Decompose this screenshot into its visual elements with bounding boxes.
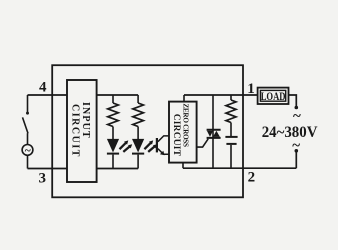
INPUT CIRCUIT box U1 [67,80,97,182]
wire: ZERO CROSS box top stub to output top rail [183,95,185,102]
resistor R1 [108,103,119,127]
wire: LED1 cathode to bottom rail [112,155,114,169]
svg-text:3: 3 [39,170,47,186]
capacitor C1 (snubber) [225,136,237,138]
AC source G1 (circle with tilde) [22,145,33,156]
wire: switch to AC source [27,133,29,144]
wire: input top rail (terminal 4 to resistor branches) [28,94,139,96]
wire: R1 to LED anode [112,127,114,140]
wire: branch R1 top lead [112,95,114,103]
LED LED1 (emitting diode) [107,139,119,153]
light arrows into phototransistor [144,140,157,152]
wire: input bottom rail (terminal 3 to LED cathodes) [28,168,139,170]
svg-text:1: 1 [247,81,255,97]
svg-text:LOAD: LOAD [261,89,286,103]
svg-text:INPUT: INPUT [80,102,91,138]
triac T1 [207,130,221,138]
svg-text:24~380V: 24~380V [262,124,318,141]
wire: R2 to LED anode [137,127,139,140]
switch S1 (open blade) [23,117,29,133]
wire: output bottom rail (terminal 2) [183,167,296,169]
wire: left riser from terminal 4 to switch contact [27,95,29,112]
svg-text:4: 4 [39,80,47,96]
wire: LED2 cathode to bottom rail [137,155,139,169]
svg-text:2: 2 [248,170,256,186]
svg-text:ZERO CROSS: ZERO CROSS [182,103,190,147]
wire: gate from ZERO CROSS to triac [197,139,209,147]
wire: R3 to C1 [230,123,232,137]
wire: output top rail (to terminal 1 and LOAD) [184,94,258,96]
wire: LOAD to AC line top [289,95,297,107]
LED LED2 (emitting diode) [132,139,144,153]
svg-text:CIRCUIT: CIRCUIT [69,104,80,157]
resistor R3 (snubber) [226,100,236,123]
wire: C1 to bottom rail [230,145,232,168]
wire: ZERO CROSS box bottom stub [182,163,184,169]
ZERO CROSS CIRCUIT box U2 [169,102,197,163]
phototransistor Q1 emitter lead with arrow [158,149,169,155]
svg-text:CIRCUIT: CIRCUIT [171,114,181,157]
wire: AC line bottom to terminal 2 [295,149,299,153]
phototransistor Q1 base bar [156,138,158,152]
wire: triac main branch [212,95,214,168]
svg-text:~: ~ [25,145,31,157]
LOAD box [258,88,289,104]
wire: snubber branch top [230,95,232,100]
wire: branch R2 top lead [137,95,139,103]
light arrows from LED1 [120,140,133,152]
SSR outer case [52,65,243,197]
resistor R2 [133,103,144,127]
svg-text:~: ~ [293,109,301,125]
wire: AC source to bottom rail [27,155,29,168]
phototransistor Q1 collector lead [158,136,169,142]
